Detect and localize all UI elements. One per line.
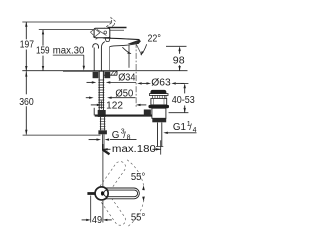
lever tab top view bbox=[87, 192, 95, 195]
svg-text:360: 360 bbox=[19, 97, 34, 108]
faucet lever phantom (raised, dashed) bbox=[93, 18, 115, 40]
max.180 right extension (waste centerline) bbox=[160, 140, 162, 154]
svg-text:40-53: 40-53 bbox=[172, 95, 195, 106]
right arrow of diameter 63 bbox=[171, 82, 184, 84]
swivel range dashed spout down bbox=[97, 190, 127, 227]
dimension 197 bbox=[20, 22, 34, 71]
label G 3/8 bbox=[112, 129, 131, 142]
counter cross-section right of faucet bbox=[104, 71, 117, 76]
dimension 98 bbox=[166, 46, 187, 71]
svg-text:55°: 55° bbox=[131, 212, 145, 223]
svg-text:Ø34: Ø34 bbox=[118, 73, 136, 84]
spout outlet centerline bbox=[135, 42, 137, 107]
pop-up rod below counter bbox=[93, 108, 95, 116]
double arrow outlet-to-waste bbox=[137, 82, 151, 84]
svg-text:98: 98 bbox=[173, 55, 185, 66]
pop-up actuator rod horizontal bbox=[95, 115, 152, 117]
faucet body right edge bbox=[128, 45, 130, 68]
faucet body inner crease bbox=[108, 47, 110, 70]
cartridge dot top view bbox=[101, 191, 104, 195]
arc arrow right of outlet bbox=[141, 44, 147, 54]
dimension 122 bbox=[91, 100, 147, 111]
spout tip / aerator dark wedge bbox=[128, 40, 141, 45]
svg-text:197: 197 bbox=[20, 40, 34, 51]
extension line hose end (360 bottom ref) bbox=[23, 134, 101, 136]
counter top line bbox=[63, 70, 117, 72]
svg-text:159: 159 bbox=[36, 46, 50, 57]
faucet lever handle (rest) bbox=[90, 28, 126, 42]
label diameter 50 with leader bbox=[86, 89, 136, 100]
tailpipe bottom tick bbox=[156, 146, 163, 148]
mounting washers bbox=[93, 72, 99, 78]
G1 1/4 leader underline bbox=[167, 132, 196, 134]
extension line lever rest top ref bbox=[39, 29, 94, 31]
waste neck (threaded) bbox=[153, 96, 166, 99]
threaded shank bbox=[98, 71, 104, 110]
svg-text:Ø63: Ø63 bbox=[151, 78, 171, 89]
spout top view (stadium) bbox=[102, 188, 140, 199]
swivel arc dashed bbox=[127, 160, 144, 187]
pop-up rod above counter bbox=[93, 48, 95, 71]
faucet body left edge bbox=[101, 42, 104, 71]
label diameter 34 with leader bbox=[87, 73, 137, 84]
counter top line right extension bbox=[117, 70, 188, 72]
dimension 49 bbox=[82, 196, 112, 227]
dimension G3/8 arrows bbox=[89, 138, 137, 140]
waste body upper bbox=[151, 98, 167, 105]
svg-text:max.180: max.180 bbox=[112, 144, 157, 155]
hose tail tube bbox=[101, 134, 103, 150]
svg-text:122: 122 bbox=[106, 100, 123, 111]
swivel range dashed spout up bbox=[97, 159, 127, 196]
hose end nut bbox=[98, 130, 107, 134]
svg-text:22°: 22° bbox=[148, 33, 161, 44]
label G1 1/4 bbox=[173, 121, 197, 134]
svg-text:49: 49 bbox=[92, 215, 103, 226]
dimension 40-53 bbox=[169, 83, 196, 112]
max.180 left extension (faucet centerline) bbox=[102, 144, 104, 186]
swivel arc arrowheads bbox=[142, 185, 145, 190]
hose tee junction bbox=[98, 110, 106, 117]
waste thread band G1 1/4 bbox=[152, 118, 166, 122]
pop-up waste plug cap (dark) bbox=[150, 90, 166, 94]
waste plug flange bbox=[149, 94, 168, 96]
arc arrow left of outlet bbox=[122, 47, 130, 53]
supply hose threaded end bbox=[98, 117, 107, 134]
hose tail kink bbox=[103, 150, 110, 154]
dimension 159 bbox=[36, 30, 50, 71]
waste seal ring (dark) bbox=[149, 105, 170, 108]
extension line top (raised lever height ref) bbox=[22, 21, 111, 23]
counter top line left extension bbox=[22, 70, 63, 72]
svg-text:8: 8 bbox=[127, 134, 131, 141]
spout underside curve bbox=[109, 43, 139, 47]
lever neck bbox=[105, 38, 110, 42]
waste body lower bbox=[152, 108, 166, 118]
spout slot top view bbox=[104, 190, 138, 197]
pop-up rod knob bbox=[93, 44, 99, 49]
dimension max.180 bbox=[103, 144, 161, 155]
faucet spout top bbox=[103, 38, 140, 40]
22 degree tilt line bbox=[137, 45, 142, 56]
waste lever boss bbox=[144, 110, 151, 116]
dimension 360 bbox=[19, 71, 100, 135]
faucet body top view (circle) bbox=[95, 187, 108, 200]
waste tailpipe bbox=[157, 123, 159, 147]
svg-text:55°: 55° bbox=[131, 172, 145, 183]
svg-text:G: G bbox=[112, 130, 120, 141]
svg-text:G1: G1 bbox=[173, 122, 186, 133]
label max.30 with leader bbox=[53, 46, 85, 71]
